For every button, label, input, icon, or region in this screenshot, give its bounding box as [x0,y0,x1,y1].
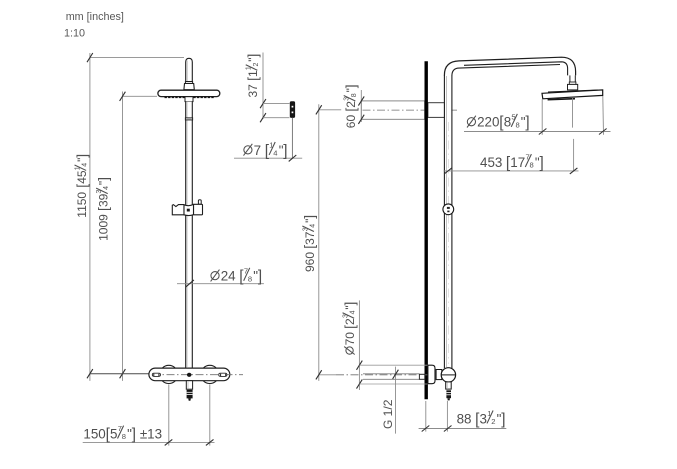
svg-text:]: ] [246,54,261,58]
dim 960 dimension line [318,104,320,381]
svg-text:4: 4 [82,163,89,167]
shower head disc (front) [158,90,220,96]
dim 60 dimension line [360,90,362,122]
svg-text:7: 7 [254,143,265,158]
svg-text:2: 2 [491,417,495,426]
svg-text:8: 8 [248,274,252,283]
slider knob (side view) [443,204,454,215]
riser pipe (side view) [445,76,452,368]
arm drop pipe [569,75,571,82]
svg-text:37: 37 [303,231,317,245]
thermostat body (side view) [428,365,435,384]
bottom centreline (dash-dot) [336,374,442,376]
dim Ø220 extension lines [541,99,543,135]
dim 453 dimension line [444,170,579,172]
svg-text:45: 45 [75,170,89,184]
arm drop connector ring [569,82,576,84]
shower pipe top cap [186,58,193,81]
left handle slot [152,373,160,376]
svg-text:±13: ±13 [136,426,162,441]
dim 150 dimension line [83,441,215,443]
shower arm: outer contour with bends [444,57,575,76]
outlet below valve [446,382,452,389]
svg-text:4: 4 [273,149,277,158]
dim 88 dimension line [419,428,507,430]
dim 1150 label [74,154,89,218]
dim 150 extension lines [168,384,170,445]
svg-text:]: ] [540,154,544,171]
dim 1009 extension line top [123,95,158,97]
svg-text:220: 220 [477,115,499,130]
svg-text:5: 5 [110,426,117,441]
head slab (side view, tilted) [542,90,603,99]
svg-text:8: 8 [516,120,520,129]
dim 453 extension line [573,139,575,171]
slider: right block [194,204,203,215]
valve circle [441,368,455,382]
holder hose line [291,118,293,159]
shower head spray face serration [165,96,215,98]
svg-text:G 1/2: G 1/2 [381,399,395,429]
dim Ø220 label [467,118,475,126]
slider: middle section over pipe [184,204,194,215]
svg-text:150: 150 [83,426,105,441]
svg-text:960: 960 [303,249,317,272]
svg-text:453: 453 [480,155,506,170]
G 1/2 leader line [395,367,397,434]
dim Ø24 label [211,272,219,280]
hand shower outlet below thermostat [186,381,192,390]
svg-text:4: 4 [309,224,316,228]
svg-text:]: ] [344,84,359,88]
dim 960 label [302,215,317,272]
dim 88 extension lines [425,401,427,432]
svg-text:8: 8 [351,93,358,97]
svg-text:1150: 1150 [75,189,89,218]
svg-text:88: 88 [457,411,476,426]
dim Ø7 label [244,146,252,154]
wall-to-riser connector [428,103,445,118]
slider: centre dark square [187,209,190,212]
svg-text:]: ] [302,215,317,219]
hand shower wall holder (dark) [290,101,295,118]
svg-text:4: 4 [350,310,357,314]
svg-text:]: ] [96,177,111,181]
svg-text:2: 2 [253,63,260,67]
riser centreline (dash-dot) [448,122,450,364]
dim Ø70 extension lines [359,364,427,366]
dim Ø7 leader line [234,157,302,159]
pipe coupling band [185,118,192,120]
svg-text:2: 2 [343,318,357,325]
slider: left block [172,205,184,215]
svg-text:4: 4 [103,186,110,190]
svg-text:]: ] [258,268,262,285]
head connector [184,84,194,90]
shared bottom extension line to thermostat centre [90,373,149,375]
svg-text:]: ] [342,302,357,306]
head collar [568,84,578,90]
hand shower hose connector (dark) [187,390,193,399]
svg-text:37: 37 [246,81,260,98]
svg-text:1:10: 1:10 [64,28,85,40]
dim 60 label [344,84,359,128]
svg-text:70: 70 [343,329,357,346]
svg-text:39: 39 [97,193,111,207]
dim Ø70 label [342,302,357,355]
main riser pipe (front) [186,102,193,369]
hose connector (dark, side) [446,390,451,398]
svg-text:24: 24 [221,269,240,284]
svg-text:3: 3 [480,411,487,426]
dim 1009 label [96,177,111,241]
riser pipe centreline (front view) [188,128,190,366]
dim 37 dimension line [262,53,264,120]
dim Ø70 dimension line [358,300,360,390]
dim 37 label [246,54,261,98]
G 1/2 nipple [419,374,424,379]
thermostat centre dot [187,373,192,377]
svg-text:]: ] [74,154,89,158]
svg-text:60: 60 [344,112,358,129]
svg-text:8: 8 [504,115,511,130]
right handle slot [219,373,227,376]
thermostat centreline (dash-dot) [152,374,243,376]
svg-text:]: ] [525,114,529,131]
svg-text:1009: 1009 [97,211,111,241]
dim 1150 dimension line [89,53,91,381]
dim 1009 dimension line [122,92,124,381]
supply pipe (in wall, top) [361,101,424,119]
svg-text:]: ] [501,411,505,428]
thermostat body bar [149,368,230,381]
thermostat handle left (behind bar) [160,365,178,383]
thermostat handle right (behind bar) [201,365,219,383]
wall line [425,61,428,399]
slider: knob on right top [198,200,201,205]
shower arm: inner bend left [452,65,560,77]
valve adapter [436,370,442,380]
shower arm: middle contour line [464,62,568,76]
svg-text:8: 8 [122,432,126,441]
svg-text:8: 8 [530,161,534,170]
supply pipe centreline (dash-dot) [363,109,458,111]
dim 1150 extension line top [90,57,184,59]
dim Ø24 leader line [177,283,264,285]
pipe joint band [185,82,192,84]
svg-text:17: 17 [510,155,525,170]
G 1/2 label [381,399,395,429]
svg-text:]: ] [283,142,287,159]
dim 37 extension lines [263,103,290,105]
dim Ø220 dimension line [464,131,611,133]
svg-text:mm [inches]: mm [inches] [66,11,124,23]
supply nipple lines (in wall, bottom) [363,373,420,375]
head attachment nut [185,97,193,102]
